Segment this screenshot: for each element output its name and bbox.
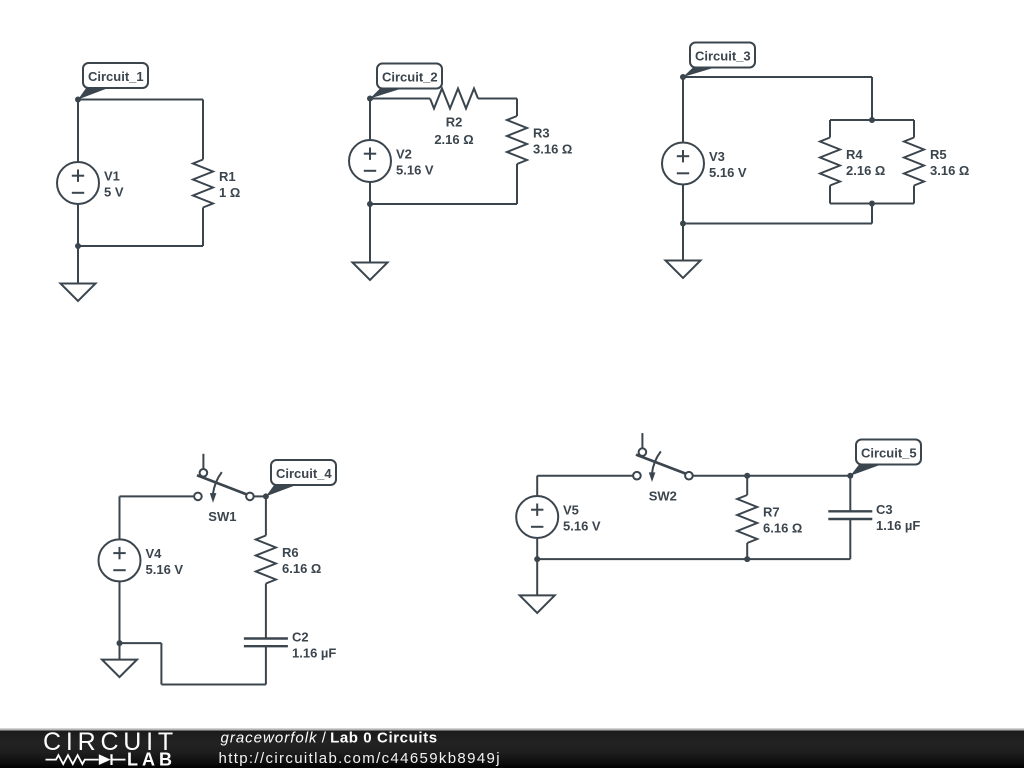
svg-text:C3: C3 (876, 502, 893, 517)
wire V4 bottom lead (119, 581, 121, 643)
svg-text:C2: C2 (292, 630, 309, 645)
capacitor C2 (244, 637, 288, 639)
wire V4 top lead (119, 496, 121, 539)
wire top rail circuit 4 left of switch (120, 495, 195, 497)
svg-text:1.16 µF: 1.16 µF (292, 646, 336, 661)
wire V1 bottom lead (77, 204, 79, 246)
node B3 (bottom node of Circuit_3) (680, 221, 686, 227)
node B4 (bottom node of Circuit_4) (117, 640, 123, 646)
ground circuit 5 (520, 595, 555, 613)
wire R6 bottom lead to C2 (265, 584, 267, 639)
wire bottom rail circuit 5 (537, 558, 850, 560)
voltage source V2 (349, 140, 391, 182)
node R7 bottom junction (744, 556, 750, 562)
svg-text:Circuit_2: Circuit_2 (382, 70, 438, 85)
wire top rail circuit 5 left of switch (537, 475, 633, 477)
footer bar top highlight line (0, 729, 1024, 731)
svg-text:R2: R2 (446, 115, 463, 130)
wire R7 top lead (746, 476, 748, 495)
wire drop from parallel pair to bottom rail (871, 204, 873, 224)
voltage source V1 (57, 162, 99, 204)
svg-text:R6: R6 (282, 545, 299, 560)
wire from SW2 to node A5 (693, 475, 851, 477)
footer bar (0, 729, 1024, 768)
wire V3 top lead (682, 77, 684, 143)
wire R3 top lead (516, 99, 518, 117)
ground circuit 2 (353, 263, 388, 281)
wire C3 bottom lead (849, 519, 851, 559)
wire from node A2 to R2 (370, 98, 430, 100)
svg-text:2.16 Ω: 2.16 Ω (434, 132, 473, 147)
svg-text:3.16 Ω: 3.16 Ω (930, 163, 969, 178)
wire V5 bottom lead (536, 538, 538, 559)
svg-text:5.16 V: 5.16 V (146, 562, 184, 577)
svg-text:5 V: 5 V (104, 185, 124, 200)
wire R3 bottom lead (516, 164, 518, 204)
wire parallel bottom bar (830, 203, 914, 205)
wire V5 top lead (536, 476, 538, 496)
logo diode (99, 754, 111, 765)
node P3 (parallel top junction) (869, 117, 875, 123)
svg-text:graceworfolk / Lab 0 Circuits: graceworfolk / Lab 0 Circuits (221, 730, 438, 747)
switch SW1 (202, 454, 204, 469)
wire R7 bottom lead (746, 543, 748, 559)
voltage source V5 (516, 496, 558, 538)
wire ground stem circuit 1 (77, 246, 79, 284)
svg-text:Circuit_4: Circuit_4 (276, 466, 332, 481)
resistor R6 (256, 536, 276, 584)
node B5 (bottom node of Circuit_5) (534, 556, 540, 562)
wire C2 bottom lead (265, 646, 267, 684)
svg-text:V1: V1 (104, 168, 120, 183)
wire V2 bottom lead (369, 182, 371, 204)
resistor R7 (737, 495, 757, 543)
ground circuit 1 (61, 284, 96, 302)
svg-text:Circuit_5: Circuit_5 (861, 446, 917, 461)
resistor R3 (507, 116, 527, 164)
wire C3 top lead (849, 476, 851, 512)
wire from R2 to top-right corner (478, 98, 517, 100)
node A4 (node right of SW1) (263, 493, 269, 499)
wire ground stem circuit 4 (119, 643, 121, 660)
wire R5 top lead (913, 120, 915, 138)
label Circuit_3 (683, 67, 717, 77)
ground circuit 4 (102, 660, 137, 678)
wire top rail circuit 1 (78, 99, 203, 101)
svg-text:2.16 Ω: 2.16 Ω (846, 163, 885, 178)
node Q3 (parallel bottom junction) (869, 201, 875, 207)
voltage source V4 (99, 539, 141, 581)
svg-text:1 Ω: 1 Ω (219, 185, 240, 200)
svg-text:5.16 V: 5.16 V (396, 163, 434, 178)
svg-text:SW2: SW2 (649, 489, 677, 504)
wire right rail down to parallel pair (871, 77, 873, 120)
node B2 (bottom node of Circuit_2) (367, 201, 373, 207)
label Circuit_4 (266, 485, 298, 497)
svg-text:6.16 Ω: 6.16 Ω (763, 521, 802, 536)
capacitor C3 (828, 510, 872, 512)
logo resistor-diode line (46, 755, 99, 764)
svg-text:R5: R5 (930, 147, 947, 162)
resistor R1 (193, 160, 213, 208)
svg-text:1.16 µF: 1.16 µF (876, 518, 920, 533)
node A5 (top-right node of Circuit_5) (847, 473, 853, 479)
svg-text:V2: V2 (396, 146, 412, 161)
svg-text:Circuit_1: Circuit_1 (88, 69, 144, 84)
node A1 (top-left node of Circuit_1) (75, 97, 81, 103)
wire bottom rail circuit 2 (370, 203, 517, 205)
wire to ground node circuit 4 (120, 642, 162, 644)
resistor R4 (820, 138, 840, 186)
svg-text:5.16 V: 5.16 V (563, 519, 601, 534)
svg-text:http://circuitlab.com/c44659kb: http://circuitlab.com/c44659kb8949j (219, 750, 501, 767)
svg-text:V5: V5 (563, 503, 579, 518)
wire ground stem circuit 2 (369, 204, 371, 263)
node B1 (bottom node of Circuit_1) (75, 243, 81, 249)
voltage source V3 (662, 143, 704, 185)
label Circuit_2 (370, 88, 404, 99)
wire top rail circuit 3 (683, 76, 872, 78)
label Circuit_1 (78, 88, 110, 100)
wire R5 bottom lead (913, 186, 915, 204)
node A3 (top-left node of Circuit_3) (680, 74, 686, 80)
wire bottom rail circuit 3 (683, 223, 872, 225)
svg-text:R1: R1 (219, 169, 236, 184)
resistor R2 (430, 89, 478, 109)
wire R1 top lead (202, 100, 204, 160)
wire parallel top bar (830, 119, 914, 121)
node R7 top junction (744, 473, 750, 479)
wire R4 top lead (829, 120, 831, 138)
node A2 (top-left node of Circuit_2) (367, 96, 373, 102)
svg-text:V3: V3 (709, 149, 725, 164)
resistor R5 (904, 138, 924, 186)
svg-text:R4: R4 (846, 147, 863, 162)
label Circuit_5 (850, 464, 882, 476)
svg-text:3.16 Ω: 3.16 Ω (533, 142, 572, 157)
ground circuit 3 (666, 261, 701, 279)
wire bottom rail circuit 1 (78, 245, 203, 247)
wire V2 top lead (369, 99, 371, 141)
wire bottom rail circuit 4 (161, 684, 266, 686)
wire R1 bottom lead (202, 208, 204, 247)
switch SW2 (641, 433, 643, 448)
wire V1 top lead (77, 100, 79, 163)
wire R6 top lead (265, 496, 267, 535)
svg-text:V4: V4 (146, 546, 163, 561)
svg-text:LAB: LAB (127, 750, 176, 768)
wire ground stem circuit 3 (682, 224, 684, 261)
wire from SW1 to node A4 (254, 495, 266, 497)
wire V3 bottom lead (682, 185, 684, 224)
svg-text:6.16 Ω: 6.16 Ω (282, 561, 321, 576)
svg-text:R3: R3 (533, 126, 550, 141)
svg-text:5.16 V: 5.16 V (709, 165, 747, 180)
svg-text:R7: R7 (763, 505, 780, 520)
svg-text:Circuit_3: Circuit_3 (695, 49, 751, 64)
wire R4 bottom lead (829, 186, 831, 204)
wire bottom step vertical (160, 643, 162, 684)
svg-text:SW1: SW1 (208, 509, 236, 524)
wire ground stem circuit 5 (536, 559, 538, 595)
